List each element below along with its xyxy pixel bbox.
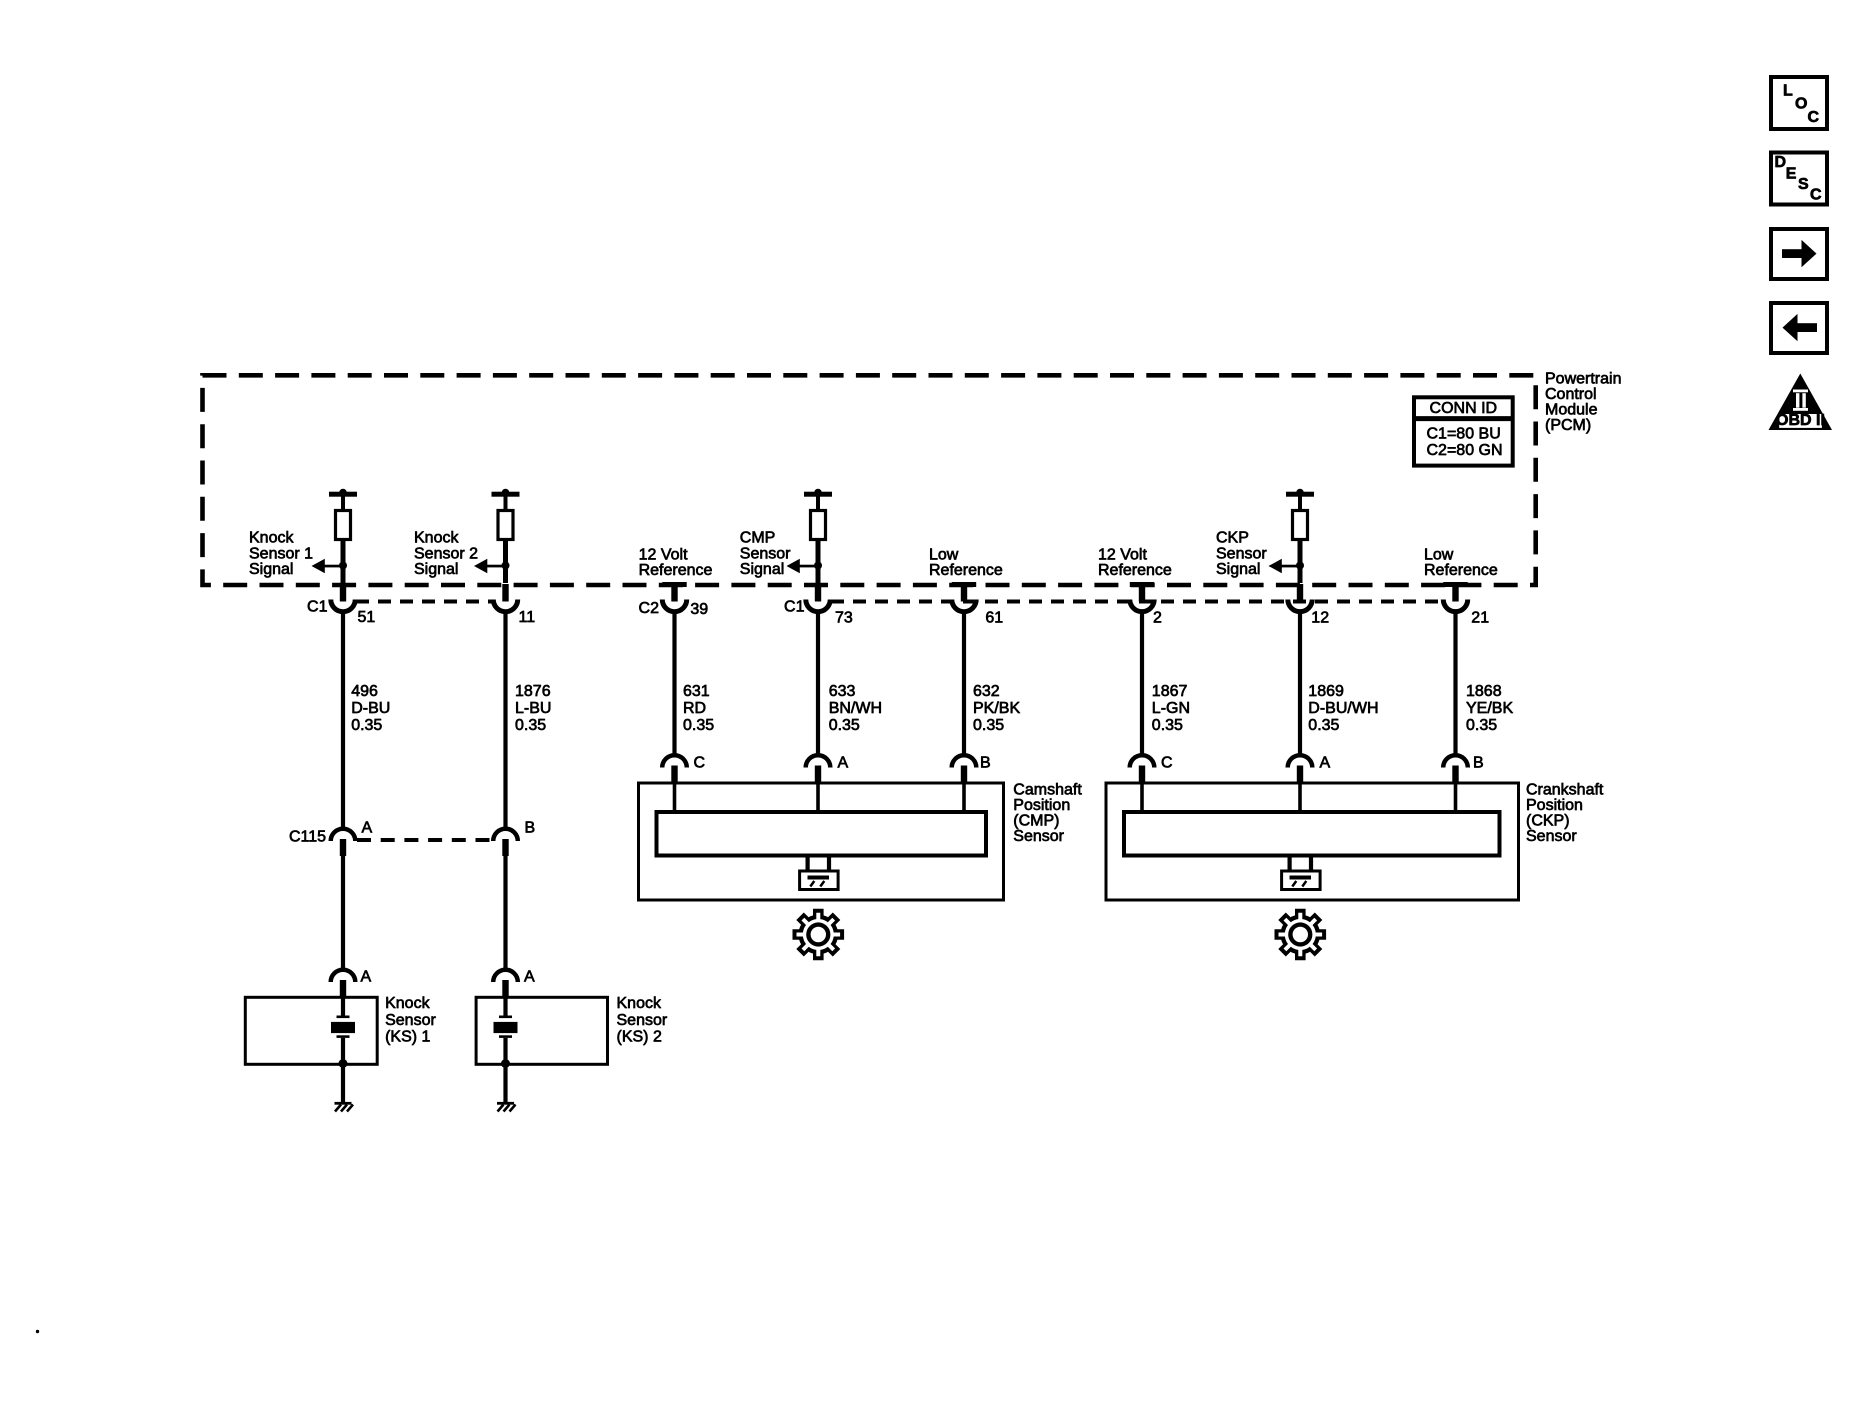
svg-text:39: 39 [690, 601, 708, 618]
svg-text:Position: Position [1013, 797, 1070, 814]
svg-text:Sensor: Sensor [740, 545, 791, 562]
svg-text:61: 61 [985, 610, 1003, 627]
svg-text:Knock: Knock [385, 995, 430, 1012]
svg-text:Knock: Knock [414, 530, 459, 547]
svg-text:Knock: Knock [249, 530, 294, 547]
svg-text:Sensor: Sensor [1526, 828, 1577, 845]
svg-text:PK/BK: PK/BK [973, 700, 1020, 717]
svg-text:0.35: 0.35 [515, 717, 546, 734]
svg-text:73: 73 [835, 610, 853, 627]
svg-text:2: 2 [1153, 610, 1162, 627]
svg-text:C1=80 BU: C1=80 BU [1427, 426, 1501, 443]
svg-text:A: A [1320, 755, 1331, 772]
svg-text:OBD II: OBD II [1776, 412, 1825, 429]
svg-text:(PCM): (PCM) [1545, 417, 1591, 434]
svg-text:496: 496 [351, 683, 378, 700]
svg-text:1868: 1868 [1466, 683, 1502, 700]
svg-text:B: B [980, 755, 991, 772]
svg-text:Reference: Reference [1098, 562, 1172, 579]
svg-text:0.35: 0.35 [1152, 717, 1183, 734]
svg-text:1876: 1876 [515, 683, 551, 700]
svg-text:Signal: Signal [740, 561, 784, 578]
svg-text:Knock: Knock [617, 995, 662, 1012]
svg-text:RD: RD [683, 700, 706, 717]
svg-text:51: 51 [358, 609, 376, 626]
svg-text:0.35: 0.35 [683, 717, 714, 734]
svg-text:Sensor: Sensor [385, 1012, 436, 1029]
svg-text:Sensor: Sensor [1013, 828, 1064, 845]
svg-text:1869: 1869 [1308, 683, 1344, 700]
svg-text:Reference: Reference [1424, 562, 1498, 579]
svg-text:L-BU: L-BU [515, 700, 551, 717]
svg-text:A: A [361, 969, 372, 986]
svg-text:0.35: 0.35 [1466, 717, 1497, 734]
svg-text:CMP: CMP [740, 530, 776, 547]
svg-text:631: 631 [683, 683, 710, 700]
svg-text:C: C [1808, 109, 1820, 126]
svg-text:Sensor: Sensor [1216, 545, 1267, 562]
svg-text:1867: 1867 [1152, 683, 1188, 700]
svg-text:A: A [838, 755, 849, 772]
svg-text:O: O [1795, 96, 1807, 113]
svg-text:Signal: Signal [249, 561, 293, 578]
svg-text:Signal: Signal [414, 561, 458, 578]
svg-text:L-GN: L-GN [1152, 700, 1190, 717]
svg-text:11: 11 [519, 609, 536, 626]
svg-text:C1: C1 [307, 599, 328, 616]
svg-text:L: L [1783, 82, 1793, 99]
svg-text:632: 632 [973, 683, 1000, 700]
svg-text:B: B [525, 820, 536, 837]
svg-text:Powertrain: Powertrain [1545, 370, 1621, 387]
svg-text:YE/BK: YE/BK [1466, 700, 1513, 717]
svg-text:BN/WH: BN/WH [829, 700, 882, 717]
svg-text:21: 21 [1471, 610, 1489, 627]
svg-text:Signal: Signal [1216, 561, 1260, 578]
svg-text:C: C [1810, 186, 1822, 203]
svg-text:C2: C2 [639, 600, 660, 617]
svg-text:(CKP): (CKP) [1526, 813, 1570, 830]
svg-text:0.35: 0.35 [1308, 717, 1339, 734]
svg-text:D-BU/WH: D-BU/WH [1308, 700, 1378, 717]
svg-text:C: C [694, 755, 706, 772]
svg-text:E: E [1786, 165, 1797, 182]
svg-text:Sensor 2: Sensor 2 [414, 545, 478, 562]
svg-text:D: D [1775, 154, 1787, 171]
svg-text:C1: C1 [784, 599, 805, 616]
svg-text:0.35: 0.35 [973, 717, 1004, 734]
svg-text:633: 633 [829, 683, 856, 700]
svg-text:0.35: 0.35 [829, 717, 860, 734]
svg-text:Reference: Reference [639, 562, 713, 579]
svg-text:Camshaft: Camshaft [1013, 781, 1082, 798]
svg-text:S: S [1798, 176, 1809, 193]
svg-text:D-BU: D-BU [351, 700, 390, 717]
svg-text:A: A [524, 969, 535, 986]
svg-text:C115: C115 [289, 829, 326, 846]
svg-text:B: B [1473, 755, 1484, 772]
svg-text:A: A [362, 820, 373, 837]
svg-text:Reference: Reference [929, 562, 1003, 579]
svg-text:0.35: 0.35 [351, 717, 382, 734]
svg-text:Sensor: Sensor [617, 1012, 668, 1029]
svg-text:CKP: CKP [1216, 530, 1249, 547]
svg-text:C: C [1161, 755, 1173, 772]
svg-text:12: 12 [1311, 610, 1329, 627]
svg-text:Control: Control [1545, 386, 1597, 403]
svg-text:Low: Low [929, 547, 959, 564]
svg-text:Sensor 1: Sensor 1 [249, 545, 313, 562]
svg-text:(CMP): (CMP) [1013, 813, 1059, 830]
svg-text:C2=80 GN: C2=80 GN [1427, 442, 1503, 459]
svg-text:(KS) 1: (KS) 1 [385, 1029, 430, 1046]
svg-text:Low: Low [1424, 547, 1454, 564]
svg-text:Module: Module [1545, 402, 1598, 419]
svg-text:Position: Position [1526, 797, 1583, 814]
svg-text:(KS) 2: (KS) 2 [617, 1029, 662, 1046]
svg-text:12 Volt: 12 Volt [639, 547, 688, 564]
svg-text:12 Volt: 12 Volt [1098, 547, 1147, 564]
svg-text:CONN ID: CONN ID [1430, 400, 1498, 417]
svg-text:Crankshaft: Crankshaft [1526, 781, 1604, 798]
